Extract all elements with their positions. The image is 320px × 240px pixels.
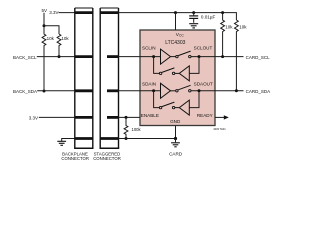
node enable 100k tap: [125, 116, 128, 119]
buffer SDA forward: [161, 83, 171, 98]
label VCC pin: [176, 32, 185, 38]
wire ENABLE to IC: [119, 116, 141, 118]
connector staggered top closure: [100, 7, 118, 9]
wire SCLOUT down: [189, 57, 199, 74]
node junction 5V split: [43, 24, 46, 27]
node SCLIN: [152, 55, 155, 58]
wire SDA row right segment: [191, 90, 244, 92]
arrow READY: [224, 115, 229, 119]
wire backplane gnd to ground: [62, 139, 75, 142]
svg-text:10k: 10k: [47, 36, 55, 41]
wire 3.3V to backplane connector (enable row): [39, 116, 75, 118]
ground card: [171, 139, 180, 147]
switch SDA top: [176, 85, 191, 92]
svg-text:VCC: VCC: [176, 32, 185, 38]
wire SCL lower branch: [154, 57, 160, 74]
pin bar staggered 3.3V long: [100, 11, 118, 14]
wire branch to right resistor: [44, 26, 59, 34]
node SCLOUT: [198, 55, 201, 58]
node SDAIN: [152, 89, 155, 92]
pin bar staggered SCL short: [107, 55, 119, 58]
pin bar staggered GND long: [100, 137, 118, 140]
capacitor 0.01uF: [189, 13, 198, 23]
ground capacitor: [189, 24, 198, 28]
svg-text:CARD_SDA: CARD_SDA: [246, 89, 271, 94]
wire switch to buffer scl bottom: [175, 72, 180, 74]
wire SCL row right segment: [191, 56, 244, 58]
op-amp U1 LTC4303 IC body: [140, 30, 215, 126]
svg-text:4303 TA01: 4303 TA01: [213, 127, 226, 131]
svg-text:0.01µF: 0.01µF: [201, 15, 216, 20]
node resistor to BACK_SDA: [43, 90, 46, 93]
buffer SCL reverse: [179, 66, 189, 81]
node pullup1 tap: [221, 11, 224, 14]
connector backplane bottom closure: [74, 147, 93, 149]
wire BACK_SDA: [37, 90, 75, 92]
svg-text:CONNECTOR: CONNECTOR: [61, 156, 89, 161]
resistor 10k (5V to BACK_SDA): [42, 26, 46, 91]
svg-text:CARD: CARD: [169, 151, 183, 156]
pin bar backplane GND: [75, 137, 93, 140]
svg-text:5V: 5V: [41, 8, 47, 13]
svg-text:GND: GND: [170, 119, 181, 124]
svg-text:LTC4303: LTC4303: [165, 40, 185, 46]
pin bar backplane ENABLE row: [75, 116, 93, 119]
buffer SCL forward: [161, 49, 171, 64]
svg-text:CONNECTOR: CONNECTOR: [93, 156, 121, 161]
wire VCC stub: [175, 13, 177, 30]
connector staggered right rail: [118, 8, 120, 148]
pin bar staggered SDA short: [107, 89, 119, 92]
resistor 10k card SCL pullup: [221, 13, 225, 57]
svg-text:BACK_SDA: BACK_SDA: [13, 89, 37, 94]
ground backplane: [57, 141, 66, 145]
wire buffer out sda: [171, 90, 176, 92]
node card sda pullup: [235, 89, 238, 92]
svg-text:READY: READY: [197, 113, 213, 118]
connector staggered bottom closure: [100, 147, 120, 149]
wire 5V down to junction: [43, 13, 45, 26]
svg-text:10k: 10k: [61, 36, 69, 41]
wire switch to buffer sda bottom: [175, 107, 180, 109]
wire card gnd row: [119, 138, 176, 140]
svg-text:10k: 10k: [239, 24, 247, 29]
pin bar staggered ENABLE short: [107, 116, 119, 119]
svg-text:ENABLE: ENABLE: [141, 113, 159, 118]
wire SDA row left segment: [119, 90, 161, 92]
resistor 10k (5V to BACK_SCL): [57, 34, 61, 57]
svg-text:CARD_SCL: CARD_SCL: [246, 55, 271, 60]
node VCC tap: [174, 11, 177, 14]
connector backplane left rail: [74, 8, 76, 148]
svg-text:BACK_SCL: BACK_SCL: [13, 55, 37, 60]
resistor 100k enable pulldown: [124, 117, 128, 138]
svg-text:10k: 10k: [225, 24, 233, 29]
connector staggered left rail: [99, 8, 101, 148]
node SDAOUT: [198, 89, 201, 92]
wire SDA lower branch: [154, 91, 160, 108]
node resistor to BACK_SCL: [58, 55, 61, 58]
node card ground: [174, 137, 177, 140]
switch SCL bottom: [159, 68, 174, 75]
wire SDAOUT down: [189, 91, 199, 108]
svg-text:3.3V: 3.3V: [29, 116, 38, 121]
wire buffer out: [171, 56, 176, 58]
wire 3.3V rail to pullups: [119, 13, 237, 20]
resistor 10k card SDA pullup: [234, 20, 238, 91]
wire 3.3V top rail left: [59, 12, 75, 14]
buffer SDA reverse: [179, 100, 189, 115]
svg-text:100k: 100k: [132, 127, 142, 132]
svg-text:SDAIN: SDAIN: [142, 82, 156, 87]
wire GND pin down: [175, 126, 177, 139]
svg-text:SDAOUT: SDAOUT: [194, 82, 213, 87]
pin bar backplane SCL: [75, 55, 93, 58]
connector backplane top closure: [75, 7, 93, 9]
connector backplane right rail: [92, 8, 94, 148]
switch SCL top: [176, 51, 191, 58]
node card scl pullup: [221, 55, 224, 58]
svg-text:SCLOUT: SCLOUT: [194, 46, 213, 51]
pin bar backplane SDA: [75, 89, 93, 92]
wire SCL row left segment: [119, 56, 161, 58]
wire READY output: [215, 116, 224, 118]
svg-text:3.3V: 3.3V: [49, 10, 58, 15]
pin bar backplane 3.3V: [75, 11, 93, 14]
svg-text:SCLIN: SCLIN: [142, 46, 156, 51]
wire BACK_SCL: [37, 56, 75, 58]
switch SDA bottom: [159, 102, 174, 109]
node 100k bottom: [125, 137, 128, 140]
node cap tap: [192, 11, 195, 14]
